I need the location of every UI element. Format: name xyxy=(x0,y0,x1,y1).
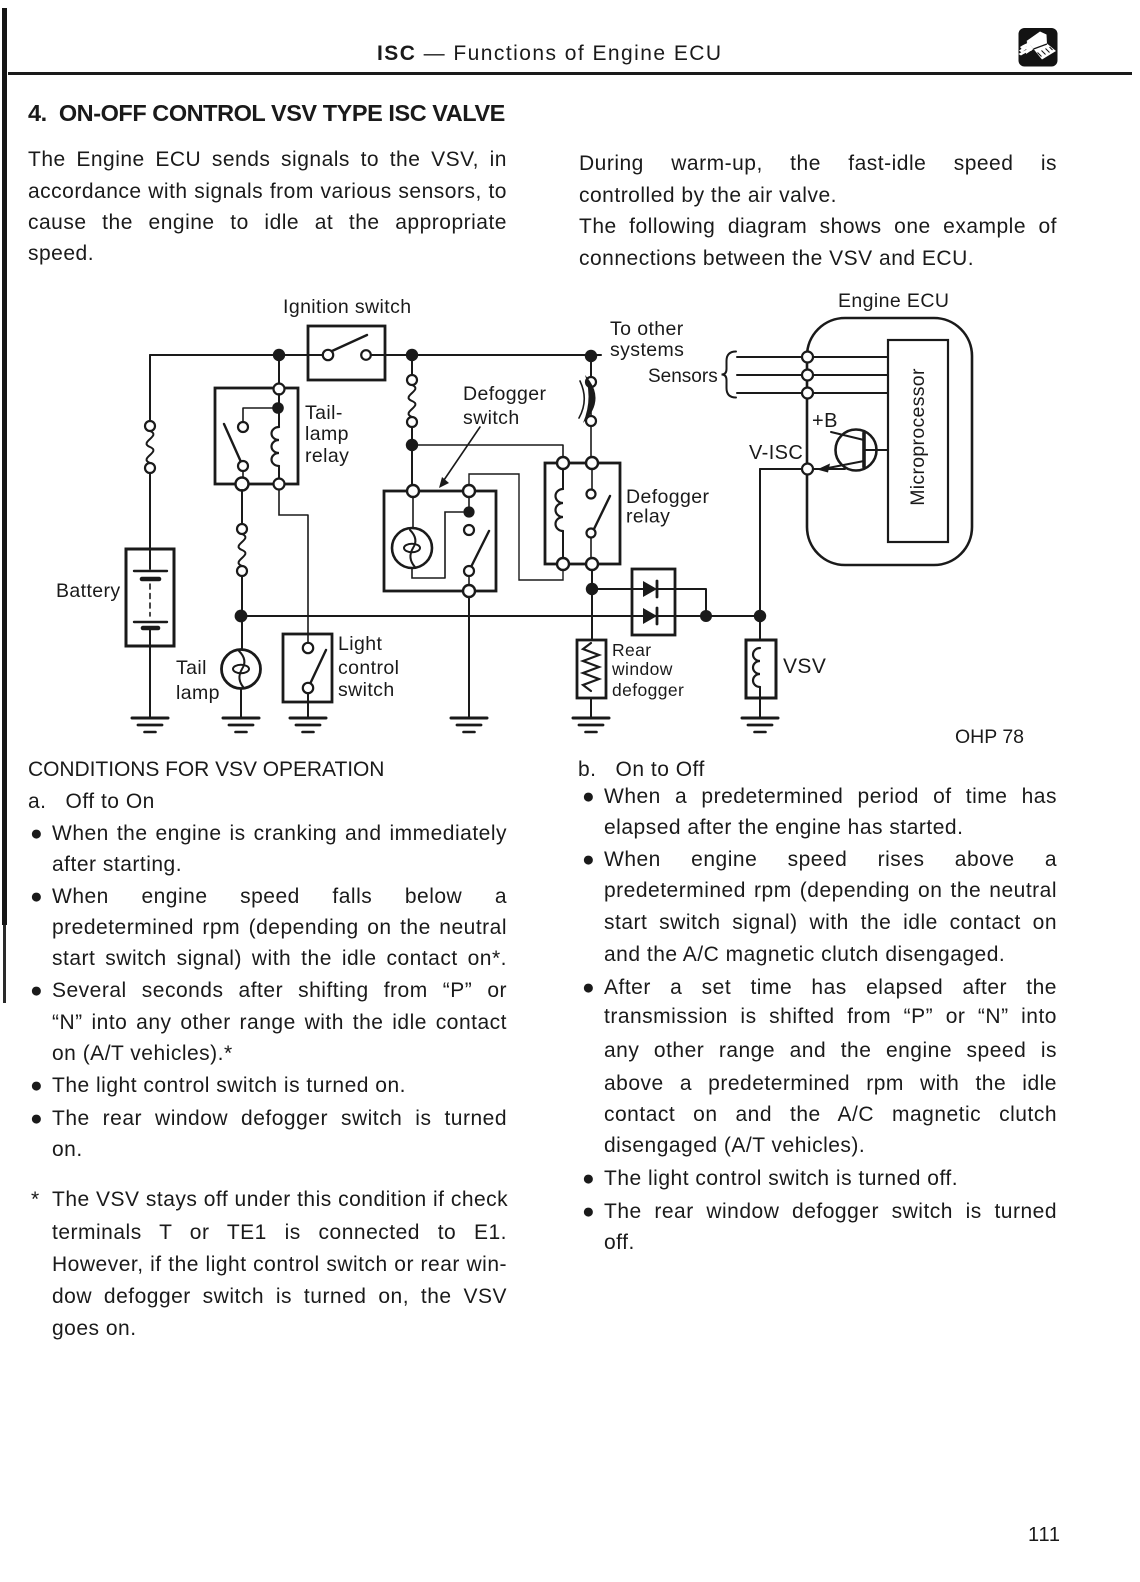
svg-text:Tail-: Tail- xyxy=(305,402,343,424)
svg-text:systems: systems xyxy=(610,339,684,361)
svg-text:window: window xyxy=(611,659,673,679)
svg-text:VSV: VSV xyxy=(783,655,826,678)
svg-text:lamp: lamp xyxy=(176,682,220,704)
svg-text:OHP 78: OHP 78 xyxy=(955,726,1024,748)
svg-text:control: control xyxy=(338,657,399,679)
svg-text:Battery: Battery xyxy=(56,580,121,602)
svg-text:defogger: defogger xyxy=(612,680,684,700)
svg-text:Defogger: Defogger xyxy=(463,383,547,405)
svg-text:Light: Light xyxy=(338,633,382,655)
svg-text:Engine ECU: Engine ECU xyxy=(838,290,949,312)
svg-text:Tail: Tail xyxy=(176,657,207,679)
svg-text:relay: relay xyxy=(626,506,670,528)
svg-text:V-ISC: V-ISC xyxy=(749,442,803,464)
svg-text:Ignition switch: Ignition switch xyxy=(283,296,411,318)
svg-text:relay: relay xyxy=(305,445,349,467)
svg-text:switch: switch xyxy=(338,679,395,701)
svg-text:switch: switch xyxy=(463,407,520,429)
svg-text:lamp: lamp xyxy=(305,423,349,445)
svg-text:Microprocessor: Microprocessor xyxy=(907,368,929,506)
svg-text:Sensors: Sensors xyxy=(648,366,718,387)
svg-text:+B: +B xyxy=(812,410,838,432)
svg-text:Rear: Rear xyxy=(612,640,652,660)
svg-text:To other: To other xyxy=(610,318,684,340)
